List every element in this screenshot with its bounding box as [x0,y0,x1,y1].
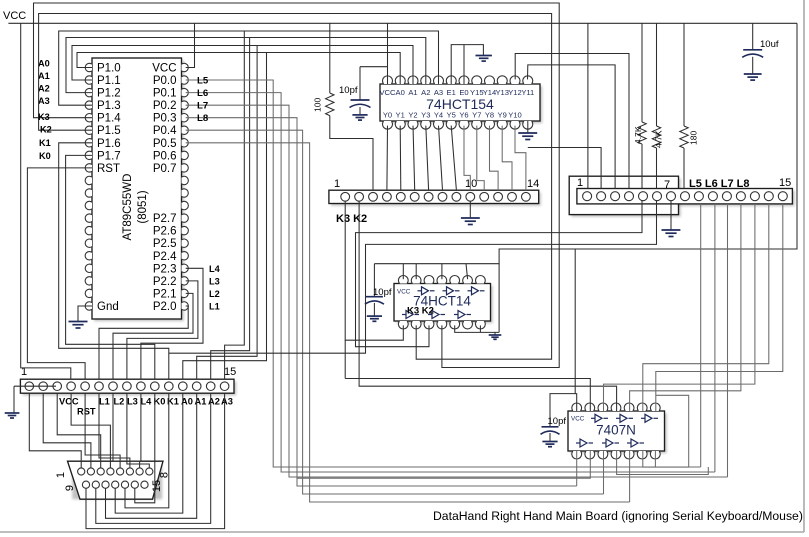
svg-text:A0: A0 [396,88,405,97]
wire U2 gnd pin [527,121,529,133]
wire U1 Gnd to ground [78,306,92,322]
wire VCC branch to U4 [575,249,577,411]
label VCC top left [3,10,26,22]
svg-text:VCC: VCC [379,88,396,97]
wire J4 pin5 to DB15 pin5 [85,393,120,468]
wire Y7 to J2 [477,126,484,191]
svg-text:L2: L2 [209,289,220,299]
wire Y0 to J2 [386,126,389,191]
svg-text:P2.7: P2.7 [153,213,177,225]
wire U3 pin7 down [479,325,481,332]
ground at C3 [367,316,382,321]
svg-text:Y9: Y9 [498,111,507,120]
svg-text:L4: L4 [141,397,153,407]
svg-text:P0.3: P0.3 [153,113,177,125]
labels L1-L4 [209,264,221,312]
svg-text:9: 9 [64,485,76,491]
wire Y5 to J2 [451,126,456,191]
svg-text:1: 1 [55,472,67,478]
capacitor C4 10pf at U4 [541,416,567,434]
svg-text:P1.1: P1.1 [97,75,121,87]
wire E1 E0 to ground [451,45,483,84]
svg-text:L7: L7 [197,101,208,112]
svg-text:10: 10 [465,178,477,190]
svg-text:DataHand Right Hand Main Board: DataHand Right Hand Main Board (ignoring… [433,509,803,523]
wire J4 pin9 down [140,393,142,461]
wire Y12 to J3 [515,54,629,189]
svg-text:P2.6: P2.6 [153,226,177,238]
wire J4 pin8 to DB15 pin8 [127,393,149,468]
wire U3 right side vertical [498,264,500,333]
label K3 K2 under J2 [336,213,367,225]
wire J3 pin15 to U4 pin7t [656,204,783,411]
ground at C2 [744,74,762,80]
resistor R2 4.7K [633,122,646,144]
wire P0.5 up to U4 pin5b [629,451,631,502]
wire net L5 up to J3 [700,204,702,467]
wire net A2 from P1.2 [66,38,426,93]
svg-text:Y10: Y10 [508,111,522,120]
wire C4 to ground [549,433,551,442]
wire J4 pins 1-3 ground link [14,385,56,387]
ground at U2 pin 12 bottom [518,133,537,140]
svg-text:Y2: Y2 [408,111,417,120]
svg-text:VCC: VCC [152,63,176,75]
buffer U4 7407N [568,403,667,459]
svg-text:P2.1: P2.1 [153,288,177,300]
wire net P0.4 [186,130,604,494]
wire J2 pin10 to ground [469,201,471,218]
svg-text:P2.2: P2.2 [153,276,177,288]
svg-text:A0: A0 [38,59,50,69]
wire P0.4 up to U4 pin3b [603,451,605,494]
DB15 connector J5 [55,461,171,499]
wire net A3 branch to J4 [225,31,245,379]
svg-text:P2.0: P2.0 [153,301,177,313]
connector J2 14-pin [329,178,541,206]
svg-text:K2: K2 [40,125,52,135]
wire net L6 up to J3 [714,204,716,472]
wire R1 to J2 pin3 [330,116,373,191]
labels on J4 pins [59,397,233,417]
wire J2 pin2 to U4 pin3t [359,201,616,411]
resistor R1 100 [313,93,335,116]
svg-text:P0.2: P0.2 [153,100,177,112]
wire J4 pin11 to DB15 bottom [125,393,169,508]
svg-text:P0.5: P0.5 [153,138,177,150]
wire VCC right edge down [374,23,797,263]
wire R2 to J3 pin5 [641,144,643,189]
capacitor C1 10pf [339,85,371,108]
svg-text:L1: L1 [209,302,220,312]
wire VCC rail [8,22,797,24]
wire U3 pin6 diag [466,264,468,280]
svg-text:1: 1 [577,177,583,189]
wire J4 pin13 to DB15 bottom [106,393,197,518]
svg-text:74HCT154: 74HCT154 [426,96,494,112]
wire L8 up to U4 pin1b [576,451,578,486]
svg-text:L6: L6 [197,88,208,99]
svg-text:7407N: 7407N [596,423,636,438]
wire U4 pin4b right loop [617,451,709,475]
wire J4 pin7 to DB15 pin7 [113,393,140,468]
wire net L6 [186,93,715,472]
svg-text:100: 100 [313,98,323,112]
wire J3 pin5 to U3 pin3b [356,201,643,347]
wire R3 to J3 pin6 [656,148,658,189]
svg-text:P1.3: P1.3 [97,100,121,112]
wire net L7 [186,105,728,477]
wire J4 pin1 to DB15 pin1 [29,393,81,468]
decoder U2 74HCT154 [379,76,542,129]
svg-text:K3 K2: K3 K2 [407,306,434,317]
microcontroller U1 AT89C55WD (8051) [85,58,188,321]
resistor R4 180 [680,126,699,148]
svg-text:Y0: Y0 [383,111,392,120]
wire net A0 from P1.0 [77,53,400,85]
svg-text:L5: L5 [197,76,209,87]
wire C2 to ground [752,57,754,74]
label K2 [40,125,52,135]
wire net RST [27,168,92,379]
wire net K3 [34,3,560,368]
svg-text:(8051): (8051) [137,190,149,223]
wire net P0.5 [186,143,630,502]
svg-text:L4: L4 [209,264,221,274]
connector J4 15-pin [20,366,236,395]
wire net K0 [66,155,155,379]
wire VCC to R4 [683,23,685,126]
svg-text:L2: L2 [114,397,125,407]
wire J4 pin2 to DB15 pin2 [43,393,91,468]
wire Y2 to J2 [413,126,415,191]
wire net K1 [59,143,169,379]
wire J4 ground stem [13,386,15,413]
svg-text:A3: A3 [221,397,233,407]
labels L5-L8 [197,76,209,125]
connector J3 15-pin [569,176,794,217]
wire VCC to R2 [641,23,643,122]
wire net L5 [186,80,701,467]
wire J4 pin10 to DB15 bottom [135,393,155,503]
wire Y3 to J2 [426,126,429,191]
wire U2 gnd to J3 pin2 [528,148,601,189]
svg-text:P1.6: P1.6 [97,138,121,150]
svg-text:P2.4: P2.4 [153,251,177,263]
svg-text:10pf: 10pf [373,287,392,298]
svg-text:K3: K3 [38,112,50,122]
svg-text:L1: L1 [99,397,110,407]
svg-text:15: 15 [224,366,236,378]
ground at C1 [352,115,367,120]
wire J4 pin3 to DB15 pin3 [57,393,100,468]
svg-text:L8: L8 [197,113,209,124]
wire net A2 branch to J4 [211,38,250,380]
wire U3 pin2 up [415,264,417,280]
svg-text:10pf: 10pf [339,85,358,96]
svg-text:15: 15 [779,177,791,189]
wire cap C1 to U2 VCC [360,66,388,68]
wire VCC to J3 pin1 [587,23,589,188]
svg-text:180: 180 [689,131,699,145]
wire U4 pin7b down [654,451,656,467]
svg-text:VCC: VCC [571,416,585,423]
svg-text:A1: A1 [38,71,50,81]
label K3 [38,112,50,122]
svg-text:10pf: 10pf [548,416,567,427]
wire Y9 to J2 [502,126,512,191]
svg-text:P1.2: P1.2 [97,88,121,100]
wire net L1 [99,306,188,379]
wire C3 to ground [373,303,375,316]
wire R4 to J3 pin8 [683,148,685,189]
wire J3 pin13 to U4 pin4t [604,204,755,411]
ground at U2 enables [476,56,492,62]
svg-text:VCC: VCC [59,397,79,407]
wire E0 up [463,45,465,84]
ground at J2 pin 10 [461,218,480,225]
label K1 [39,138,51,148]
wire net L7 up to J3 [727,204,729,477]
wire J4 pin4 to DB15 pin4 [71,393,110,468]
svg-text:P2.5: P2.5 [153,238,177,250]
svg-text:VCC: VCC [397,289,411,296]
svg-text:K1: K1 [39,138,51,148]
wire VCC to C2 [752,23,754,50]
svg-text:P1.7: P1.7 [97,150,121,162]
svg-text:A3: A3 [38,96,50,106]
wire J4 pin15 to DB15 bottom [86,393,225,528]
wire Y11 to J3 [528,65,616,189]
labels A0-A3 [38,59,50,107]
wire J4 pin14 to DB15 bottom [96,393,211,523]
wire net L3 [127,281,198,379]
wire U4 pin2b down [297,451,590,478]
wire Y10 to J2 [515,126,526,191]
svg-text:4.7K: 4.7K [633,126,643,144]
svg-text:L3: L3 [209,276,220,286]
wire VCC to R3 [656,23,658,126]
hex inverter U3 74HCT14 [394,276,493,329]
ground at C4 [542,442,557,447]
wire J3 pin14 to U4 pin6t [643,204,769,411]
label K3 K2 on U3 [407,306,434,317]
svg-text:P2.3: P2.3 [153,263,177,275]
svg-text:15: 15 [151,480,163,492]
capacitor C3 10pf at U3 [365,287,392,304]
wire U4 pin6b loop via right [643,395,689,467]
wire cap C1 stem [359,67,361,100]
svg-text:VCC: VCC [3,10,26,22]
wire U3 pin4 up [441,264,443,280]
svg-text:RST: RST [77,407,96,417]
svg-text:P0.0: P0.0 [153,75,177,87]
wire Y1 to J2 [399,126,402,191]
wire J2 pin1 lower stub [344,340,346,378]
wire J2 pin1 to U3 pin1b [345,201,403,340]
svg-text:P1.0: P1.0 [97,63,121,75]
svg-text:7: 7 [664,179,670,191]
svg-text:P0.7: P0.7 [153,163,177,175]
wire J4 pin12 to DB15 bottom [115,393,183,513]
wire J3 pin7 to ground [670,201,672,230]
wire net L2 [113,293,193,379]
svg-text:1: 1 [334,178,340,190]
svg-text:A1: A1 [408,88,417,97]
svg-text:A2: A2 [208,397,220,407]
svg-text:K0: K0 [39,151,51,161]
svg-text:Y11: Y11 [521,88,534,97]
svg-text:RST: RST [97,163,120,175]
wire U3 pins 5,7 gnd [455,325,499,335]
svg-text:K3 K2: K3 K2 [336,213,367,225]
svg-text:P0.1: P0.1 [153,88,177,100]
wire Y6 to J2 [464,126,470,191]
wire Y8 to J2 [490,126,499,191]
svg-text:AT89C55WD: AT89C55WD [122,174,134,241]
wire C1 to ground [359,107,361,115]
svg-text:P1.4: P1.4 [97,113,121,125]
wire net L8 [186,118,577,486]
wire U2 VCC pin [387,23,389,84]
svg-text:P1.5: P1.5 [97,125,121,137]
wire net A3 from P1.3 [59,31,439,105]
wire VCC to R1 [329,23,331,93]
svg-text:4.7K: 4.7K [654,130,664,148]
wire U4 cap branch [550,394,575,427]
svg-text:Gnd: Gnd [97,301,119,313]
svg-text:L5 L6 L7 L8: L5 L6 L7 L8 [689,178,750,190]
ground at J4 left [5,413,20,418]
wire Y4 to J2 [439,126,443,191]
wire net L4 [141,268,203,379]
wire net A1 branch to J4 [197,46,257,380]
wire J3 pin12 to U4 pin5t [630,204,741,411]
svg-text:14: 14 [527,178,539,190]
svg-text:P0.4: P0.4 [153,125,177,137]
wire U3 VCC pin [402,264,404,280]
wire J2 pin1b branch to U4 pin2t [345,379,590,412]
label K0 [39,151,51,161]
wire C3 stem [373,264,375,297]
wire J4 pin6 to DB15 pin6 [99,393,130,468]
svg-text:Y13: Y13 [495,88,509,97]
ground at J3 pin 7 [662,230,681,237]
wire net A1 from P1.1 [72,46,413,85]
svg-text:L3: L3 [127,397,138,407]
resistor R3 4.7K [652,126,663,148]
svg-text:10uf: 10uf [760,39,779,50]
ground at U3 right [489,335,502,339]
wire J3 pin6 long run left [169,201,657,354]
svg-text:Y12: Y12 [508,88,522,97]
svg-text:P0.6: P0.6 [153,150,177,162]
wire net K2 [39,14,552,360]
wire net A0 branch to J4 [183,53,267,380]
ground at U1 Gnd [69,322,88,329]
capacitor C2 10uf [742,39,779,57]
svg-text:Y1: Y1 [396,111,405,120]
svg-text:A2: A2 [38,84,50,94]
title text [433,509,803,523]
wire VCC down left edge to J4 [21,23,71,379]
wire VCC to U1 VCC pin [186,23,195,67]
